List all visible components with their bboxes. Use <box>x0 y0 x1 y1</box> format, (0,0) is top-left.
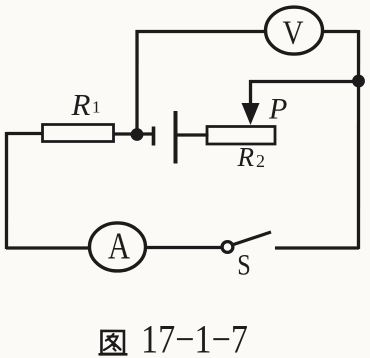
svg-text:2: 2 <box>256 151 265 171</box>
svg-text:P: P <box>268 93 287 126</box>
wire: right vertical side <box>357 30 360 249</box>
wire: wiper top horizontal <box>249 80 358 83</box>
wire: bottom left segment <box>6 246 90 249</box>
svg-text:A: A <box>108 225 130 267</box>
voltmeter V meter ellipse <box>266 7 323 54</box>
node: junction dot right side <box>352 75 365 88</box>
wire: voltmeter branch vertical <box>135 30 138 134</box>
battery positive plate (long) <box>174 111 178 164</box>
wire: switch to right corner <box>275 246 359 249</box>
wire: R1 to battery negative <box>113 132 153 135</box>
svg-text:V: V <box>283 15 304 52</box>
node: junction dot on main wire <box>131 128 144 141</box>
switch S blade <box>233 232 271 245</box>
wire: left vertical side <box>5 132 8 249</box>
caption hanzi TU (figure) drawn glyph <box>98 331 127 354</box>
wire: wiper vertical drop <box>249 80 252 106</box>
svg-text:17−1−7: 17−1−7 <box>141 316 248 358</box>
wire: main row left segment to R1 <box>6 132 43 135</box>
battery negative plate (short) <box>152 126 156 145</box>
wire: battery positive to R2 <box>176 133 209 136</box>
svg-text:R: R <box>71 87 91 122</box>
rheostat R2 body <box>207 127 275 145</box>
wire: ammeter to switch <box>145 246 222 249</box>
svg-text:R: R <box>237 142 255 172</box>
resistor R1 body <box>43 124 114 141</box>
wiper arrow head <box>242 103 260 125</box>
svg-text:1: 1 <box>92 97 101 116</box>
wire: top horizontal to voltmeter <box>136 30 267 33</box>
svg-text:S: S <box>237 249 251 282</box>
switch S pivot circle <box>222 242 233 253</box>
wire: voltmeter to right corner <box>321 30 358 33</box>
ammeter A meter ellipse <box>89 223 145 271</box>
